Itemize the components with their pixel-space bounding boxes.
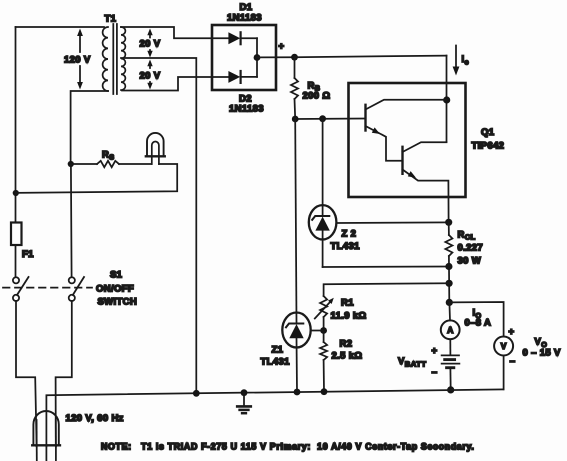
node RCL top	[445, 219, 452, 226]
zener Z2 (TL431)	[309, 205, 337, 239]
svg-text:−: −	[432, 368, 438, 379]
wire fuse to switch	[15, 245, 17, 277]
svg-text:1N1183: 1N1183	[227, 13, 262, 24]
zener Z1 (TL431)	[282, 313, 310, 348]
svg-text:30 W: 30 W	[458, 256, 482, 267]
svg-text:V: V	[501, 341, 507, 351]
svg-text:+: +	[509, 327, 515, 338]
transistor Q1 input stage	[364, 105, 366, 131]
transistor Q1 box	[349, 83, 466, 197]
resistor RB	[294, 57, 296, 78]
node battery bottom	[447, 386, 454, 393]
svg-text:20 V: 20 V	[140, 39, 161, 50]
svg-text:Q1: Q1	[481, 127, 495, 138]
svg-text:+: +	[432, 346, 438, 357]
diode D2	[228, 71, 240, 83]
diode box	[212, 25, 276, 90]
ammeter A	[441, 320, 460, 339]
svg-text:A: A	[447, 325, 453, 335]
node diode output	[254, 54, 261, 61]
svg-text:SWITCH: SWITCH	[98, 297, 138, 308]
node center-tap rail	[193, 390, 200, 397]
wire secondary bottom to D2	[122, 77, 228, 91]
svg-text:TIP642: TIP642	[472, 141, 505, 152]
svg-text:Z 2: Z 2	[342, 229, 357, 240]
node R1/R2/Z1	[320, 327, 327, 334]
node Rs tap	[68, 161, 74, 167]
node Z2 top tap	[319, 115, 326, 122]
wire plug prong stems	[36, 420, 38, 446]
wire ammeter top	[448, 302, 451, 320]
current arrow ic	[455, 46, 457, 71]
wire neutral rail	[46, 389, 503, 446]
svg-text:0.227: 0.227	[458, 243, 484, 254]
node R1 feed	[446, 280, 453, 287]
svg-text:1N1183: 1N1183	[229, 104, 264, 115]
voltmeter V	[494, 337, 513, 356]
svg-text:R1: R1	[341, 298, 354, 309]
svg-text:+: +	[279, 41, 285, 52]
fuse F1	[11, 223, 22, 246]
resistor RCL	[448, 222, 450, 235]
svg-text:−: −	[510, 357, 516, 368]
wire + rail to collector	[295, 56, 447, 58]
svg-text:T1: T1	[105, 14, 117, 25]
svg-text:TL431: TL431	[331, 241, 361, 252]
wire primary bottom	[71, 91, 108, 164]
resistor R1 (variable)	[320, 296, 327, 317]
switch S1 right pole	[69, 277, 75, 283]
wire top-left rail horizontal	[16, 26, 105, 28]
transformer T1 core	[112, 24, 114, 94]
node RB bottom	[292, 116, 299, 123]
wire Rs feed	[71, 163, 97, 165]
ground symbol	[243, 393, 245, 406]
wire right pole down to switch	[70, 164, 73, 277]
plug body	[33, 411, 58, 445]
svg-text:Z1: Z1	[272, 345, 284, 356]
wire collector feed vertical	[446, 56, 448, 142]
wire switch to plug (right)	[56, 301, 72, 446]
node ammeter/voltmeter tap	[446, 299, 453, 306]
node RCL bottom	[445, 263, 452, 270]
plug prongs	[36, 446, 38, 461]
transformer T1 primary winding	[103, 27, 108, 91]
svg-text:F1: F1	[22, 249, 34, 260]
wire Z1 ref pin	[311, 330, 324, 332]
svg-text:11.9 kΩ: 11.9 kΩ	[331, 311, 367, 322]
wire secondary top to D1	[121, 27, 228, 38]
node collector	[443, 96, 450, 103]
resistor RS	[97, 161, 119, 167]
svg-text:120 V, 60 Hz: 120 V, 60 Hz	[66, 413, 124, 424]
svg-text:0–8 A: 0–8 A	[465, 318, 492, 329]
svg-text:R2: R2	[340, 339, 353, 350]
svg-text:TL431: TL431	[261, 357, 291, 368]
wire Rs to lamp	[119, 163, 152, 165]
node ground tap	[241, 389, 248, 396]
wire base	[295, 118, 365, 121]
transformer T1 secondary winding	[121, 27, 125, 90]
svg-text:2.5 kΩ: 2.5 kΩ	[332, 351, 363, 362]
wire diode output join	[256, 38, 258, 77]
node + rail / RB top	[291, 54, 298, 61]
node lamp-return junction	[13, 190, 19, 196]
node R2 rail	[321, 388, 328, 395]
wire left rail vertical	[15, 27, 17, 223]
svg-text:D1: D1	[240, 2, 253, 13]
switch S1 dashed gang line	[3, 287, 92, 289]
svg-text:0 – 15 V: 0 – 15 V	[523, 348, 562, 359]
diode D1	[228, 32, 240, 44]
wire Z2 anode to RCL bottom	[323, 266, 449, 269]
switch S1 left pole	[13, 277, 19, 283]
svg-text:S1: S1	[110, 270, 123, 281]
resistor R2	[323, 331, 325, 343]
wire bridge + output	[257, 56, 295, 58]
svg-text:NOTE: T1 is TRIAD F-275 U 11: NOTE: T1 is TRIAD F-275 U 115 V Primary:…	[101, 442, 475, 452]
wire Z1 cathode feed	[295, 119, 296, 323]
wire to voltmeter branch	[449, 302, 503, 337]
svg-text:ON/OFF: ON/OFF	[96, 284, 134, 295]
transistor Q1 output stage	[401, 147, 403, 174]
lamp	[147, 133, 164, 156]
svg-text:20 V: 20 V	[140, 71, 161, 82]
svg-text:200 Ω: 200 Ω	[303, 91, 331, 102]
wire lamp return	[16, 164, 177, 193]
wire center tap down	[121, 58, 196, 393]
svg-text:120 V: 120 V	[64, 55, 91, 66]
battery VBATT	[442, 354, 459, 356]
wire switch to plug (left)	[16, 301, 37, 446]
node Z1 rail	[294, 389, 301, 396]
wire Z2 ref pin	[336, 221, 448, 224]
wire R1 top feed	[324, 283, 450, 296]
wire Z2 cathode feed	[322, 119, 324, 216]
